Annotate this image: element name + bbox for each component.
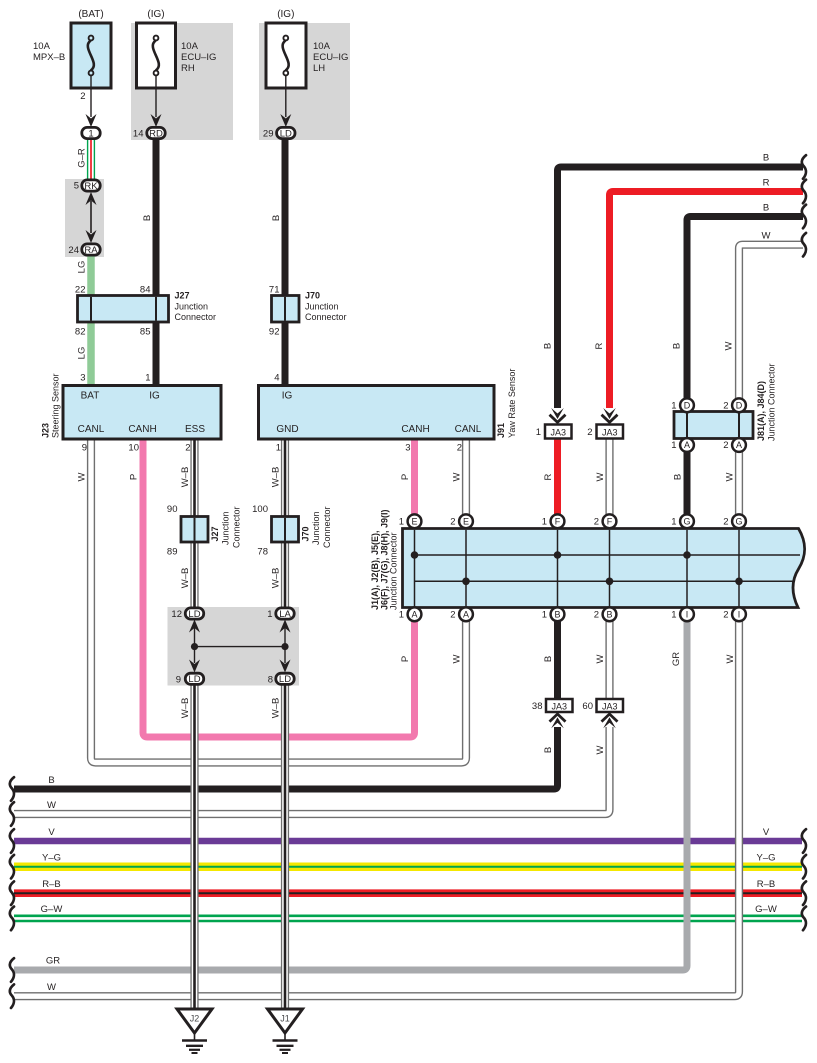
svg-text:A: A [684,440,690,450]
connector oval RD [147,127,165,138]
svg-text:14: 14 [133,129,144,140]
svg-text:R–B: R–B [757,879,775,890]
svg-text:ECU–IG: ECU–IG [313,52,348,63]
svg-text:GR: GR [671,652,682,666]
svg-text:Connector: Connector [175,312,217,322]
svg-text:MPX–B: MPX–B [33,52,65,63]
svg-text:Yaw Rate Sensor: Yaw Rate Sensor [507,369,517,438]
svg-text:W: W [76,472,87,481]
svg-text:2: 2 [723,401,728,412]
svg-text:1: 1 [536,427,541,438]
svg-text:2: 2 [450,610,455,621]
svg-text:J27: J27 [175,291,190,301]
svg-text:BAT: BAT [81,391,100,402]
node 2F top [603,514,617,528]
steering sensor J23 box [63,386,221,440]
connector JA3 (1) [551,408,564,419]
wire W J84 2A to 2G [735,450,743,516]
svg-text:A: A [463,610,469,620]
node 2A bottom [459,607,473,621]
wire W bus top (to J84 2D) [739,245,803,399]
svg-text:W: W [451,654,462,663]
wire W JA3-2 to 2F [605,438,613,516]
svg-text:V: V [763,827,770,838]
wire LG RA to BAT (through J27) [87,255,95,386]
svg-text:E: E [411,517,417,527]
svg-text:G: G [683,517,690,527]
wire GR from 1I to bus [14,620,687,970]
svg-text:71: 71 [269,285,280,296]
gray block connectors RK/RA [65,179,104,257]
junction connector J1/J2/J5/J6/J7/J8/J9 (big) [403,529,805,608]
node A J81 [732,438,746,452]
svg-text:LG: LG [76,261,87,274]
connector oval LD (29) [277,127,295,138]
node 2E top [459,514,473,528]
svg-text:10A: 10A [313,41,331,52]
connector JA3 (2) [603,408,616,419]
svg-text:1: 1 [399,610,404,621]
node 1F top [551,514,565,528]
wire W-B yaw GND to 1LA (through J70 small) [281,439,289,608]
svg-text:2: 2 [587,427,592,438]
connector JA3 (38) [546,699,573,712]
svg-text:LD: LD [188,674,200,685]
svg-text:100: 100 [252,504,268,515]
svg-text:B: B [543,656,554,662]
svg-text:JA3: JA3 [550,428,566,438]
svg-text:10: 10 [128,443,139,454]
svg-text:W: W [762,231,771,242]
svg-text:B: B [554,610,560,620]
svg-text:W: W [47,982,56,993]
svg-text:Junction: Junction [175,301,209,311]
svg-text:F: F [607,517,613,527]
wire P steering CANH to 1A [143,439,415,737]
svg-text:J1(A), J2(B), J5(E),: J1(A), J2(B), J5(E), [370,530,380,610]
svg-text:IG: IG [282,391,293,402]
wire B LD(29) to IG yaw (through J70) [282,139,289,386]
connector oval RK [82,180,100,191]
wire G-R fuse1 to RK [87,139,95,180]
wire W from 2I to bus [14,620,739,996]
svg-text:2: 2 [594,610,599,621]
svg-text:A: A [411,610,417,620]
svg-text:LG: LG [76,347,87,360]
svg-text:CANH: CANH [128,424,156,435]
svg-text:Connector: Connector [305,312,347,322]
svg-text:CANL: CANL [455,424,482,435]
svg-text:J70: J70 [300,526,310,541]
svg-text:W: W [725,654,736,663]
svg-text:1: 1 [267,609,272,620]
svg-text:24: 24 [68,245,79,256]
svg-text:60: 60 [582,701,593,712]
svg-text:W: W [47,800,56,811]
svg-text:Connector: Connector [231,506,241,548]
connector links 12LD/1LA to 9LD/8LD [189,620,200,633]
connector oval 1 [82,127,100,138]
svg-text:D: D [736,401,743,411]
svg-text:(BAT): (BAT) [78,9,103,20]
svg-text:29: 29 [263,129,274,140]
svg-text:LD: LD [279,674,291,685]
svg-text:3: 3 [405,443,410,454]
svg-text:CANH: CANH [401,424,429,435]
svg-text:1: 1 [671,517,676,528]
svg-text:JA3: JA3 [551,702,567,712]
node 1I bottom [680,607,694,621]
wire B RD to IG steering (through J27) [153,139,160,386]
wire B bus 2 (to J81 1D) [687,217,803,400]
svg-text:W–B: W–B [270,568,281,589]
gray block fuse ECU-IG LH [259,23,350,140]
svg-text:W–B: W–B [180,568,191,589]
svg-text:G–W: G–W [755,904,777,915]
connector oval 8 LD [276,673,294,684]
junction connector J81(A),J84(D) [674,412,753,439]
gray block connectors LD/LA [168,607,300,686]
svg-text:G–R: G–R [76,148,87,168]
svg-text:P: P [400,656,411,662]
node 1A bottom [408,607,422,621]
svg-text:5: 5 [74,181,79,192]
wire R-B bus [14,889,802,897]
svg-text:I: I [686,610,689,620]
svg-text:Connector: Connector [322,506,332,548]
svg-text:J91: J91 [496,423,506,438]
svg-text:LH: LH [313,63,325,74]
connector oval 12 LD [185,608,203,619]
wire G-W bus [14,915,802,923]
svg-text:2: 2 [723,517,728,528]
junction connector J70 (small) [272,517,299,543]
wire R bus (to JA3 2) [610,192,804,409]
svg-text:B: B [48,775,54,786]
svg-text:(IG): (IG) [147,9,164,20]
connector oval 9 LD [185,673,203,684]
connector oval 1 LA [276,608,294,619]
svg-text:Junction Connector: Junction Connector [389,532,399,610]
yaw rate sensor J91 box [259,386,495,440]
ground J1 [268,1009,303,1033]
svg-text:W–B: W–B [180,467,191,488]
svg-text:B: B [763,153,769,164]
wire W-B 9LD to ground J2 [190,684,198,1009]
svg-text:W: W [723,341,734,350]
node 1E top [408,514,422,528]
svg-text:2: 2 [80,91,85,102]
node 2G top [732,514,746,528]
svg-text:2: 2 [457,443,462,454]
wire W bus bottom (to JA3 60 / 2B) [14,727,610,814]
svg-text:38: 38 [532,701,543,712]
svg-text:W–B: W–B [270,467,281,488]
svg-text:J2: J2 [190,1014,200,1024]
wire B bus bottom (to JA3 38 / 1B) [14,727,558,789]
svg-text:J81(A), J84(D): J81(A), J84(D) [756,381,766,441]
svg-text:CANL: CANL [78,424,105,435]
svg-text:W: W [595,472,606,481]
fuse 10A ECU-IG LH [266,23,306,88]
svg-text:1: 1 [671,440,676,451]
svg-text:W–B: W–B [270,698,281,719]
svg-text:8: 8 [268,674,273,685]
svg-text:I: I [738,610,741,620]
svg-text:LD: LD [280,128,292,139]
svg-text:B: B [671,343,682,349]
node D J81 [732,398,746,412]
svg-text:GR: GR [46,956,60,967]
svg-text:R: R [543,473,554,480]
wire V bus [14,838,802,844]
svg-text:J1: J1 [280,1014,290,1024]
wire B bus top (to JA3 1) [558,167,804,408]
bus line bottom (pins 2) [415,580,796,582]
svg-text:84: 84 [140,285,151,296]
svg-text:1: 1 [671,610,676,621]
svg-text:22: 22 [75,285,86,296]
gray block fuse ECU-IG RH [131,23,233,140]
svg-text:J27: J27 [210,526,220,541]
svg-text:RH: RH [181,63,195,74]
svg-text:IG: IG [149,391,160,402]
svg-text:B: B [763,203,769,214]
svg-text:1: 1 [88,128,93,139]
svg-text:2: 2 [450,517,455,528]
junction connector J70 (top) [272,296,300,323]
svg-text:P: P [400,474,411,480]
svg-text:D: D [684,401,691,411]
ground J2 [177,1009,212,1033]
svg-text:B: B [271,215,282,221]
junction connector J27 (small) [181,517,208,543]
svg-text:9: 9 [176,674,181,685]
svg-text:RK: RK [84,181,98,192]
connector pair RK-RA arrows [86,192,97,205]
svg-text:B: B [672,474,683,480]
fuse 10A MPX-B (BAT) [71,23,111,88]
svg-text:R: R [594,342,605,349]
svg-text:90: 90 [167,504,178,515]
wire W-B ESS to 12LD (through J27 small) [190,439,198,608]
svg-text:GND: GND [276,424,298,435]
node 2B bottom [603,607,617,621]
svg-text:P: P [128,474,139,480]
svg-text:Y–G: Y–G [756,853,775,864]
svg-text:Junction: Junction [311,511,321,545]
svg-text:78: 78 [257,547,268,558]
wire W steering CANL to 2A [91,439,466,763]
node 1G top [680,514,694,528]
svg-text:1: 1 [276,443,281,454]
wire-break curls left [10,777,14,801]
svg-text:4: 4 [274,373,279,384]
svg-text:92: 92 [269,327,280,338]
svg-text:LD: LD [188,609,200,620]
bus line top (pins 1) [415,554,801,556]
svg-text:ECU–IG: ECU–IG [181,52,216,63]
wire P yaw CANH to 1E [411,439,418,516]
svg-text:RA: RA [84,245,98,256]
connector JA3 (60) [597,699,624,712]
svg-text:Junction: Junction [305,301,339,311]
svg-text:1: 1 [671,401,676,412]
svg-text:1: 1 [145,373,150,384]
junction connector J27 (top) [78,296,169,323]
svg-text:10A: 10A [33,41,51,52]
svg-text:LA: LA [279,609,291,620]
svg-text:B: B [142,215,153,221]
wire-break curls right [802,155,806,179]
svg-text:J70: J70 [305,291,320,301]
svg-text:1: 1 [399,517,404,528]
wire R JA3-1 to 1F [554,438,561,516]
svg-text:G–W: G–W [41,904,63,915]
svg-text:2: 2 [723,440,728,451]
node 1B bottom [551,607,565,621]
svg-text:A: A [736,440,742,450]
svg-text:ESS: ESS [185,424,205,435]
svg-text:(IG): (IG) [277,9,294,20]
svg-text:2: 2 [723,610,728,621]
svg-text:R: R [763,178,770,189]
wire W yaw CANL to 2E [462,439,470,516]
svg-text:W: W [451,472,462,481]
svg-text:89: 89 [167,547,178,558]
svg-text:Junction Connector: Junction Connector [766,363,776,441]
svg-text:W: W [595,654,606,663]
svg-text:B: B [542,343,553,349]
svg-text:2: 2 [594,517,599,528]
svg-text:12: 12 [171,609,182,620]
connector oval RA [82,244,100,255]
svg-text:F: F [555,517,561,527]
node 2I bottom [732,607,746,621]
wire Y-G bus [14,862,802,871]
svg-text:10A: 10A [181,41,199,52]
node D J81 [680,398,694,412]
svg-text:85: 85 [140,327,151,338]
svg-text:Steering Sensor: Steering Sensor [50,373,60,438]
svg-text:W–B: W–B [180,698,191,719]
svg-text:RD: RD [149,128,163,139]
svg-text:J23: J23 [40,423,50,438]
fuse 10A ECU-IG RH [137,23,176,88]
svg-text:B: B [606,610,612,620]
node A J81 [680,438,694,452]
svg-text:G: G [735,517,742,527]
svg-text:W: W [595,745,606,754]
svg-text:9: 9 [82,443,87,454]
wire B J81 1A to 1G [684,450,691,516]
svg-text:Y–G: Y–G [42,853,61,864]
svg-text:Junction: Junction [221,511,231,545]
svg-text:V: V [48,827,55,838]
svg-text:82: 82 [75,327,86,338]
svg-text:B: B [543,747,554,753]
svg-text:W: W [724,472,735,481]
svg-text:JA3: JA3 [602,428,618,438]
svg-text:2: 2 [185,443,190,454]
wire W-B 8LD to ground J1 [281,684,289,1009]
svg-text:3: 3 [80,373,85,384]
svg-text:1: 1 [542,610,547,621]
svg-text:1: 1 [542,517,547,528]
svg-text:JA3: JA3 [602,702,618,712]
svg-text:R–B: R–B [42,879,60,890]
svg-text:E: E [463,517,469,527]
